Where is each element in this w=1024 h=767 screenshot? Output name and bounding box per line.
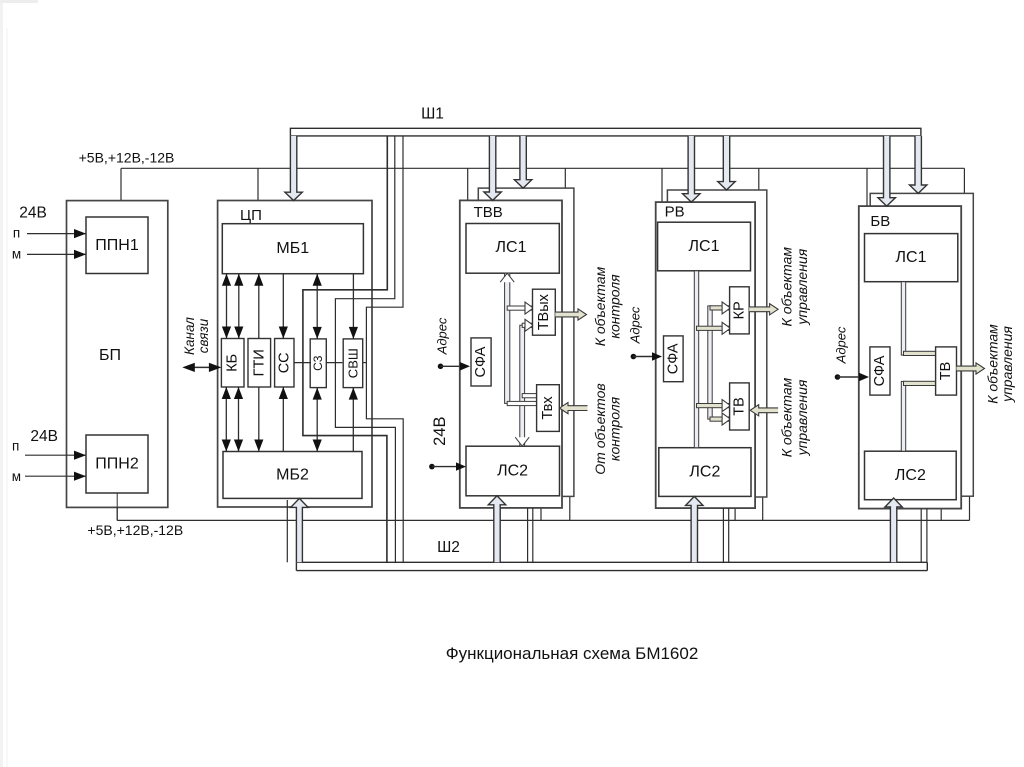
wire РВ back drop [762,497,764,520]
wire ТВВ ЛС2 down a [527,508,529,562]
wire ТВВ H1 [507,401,536,405]
wire БВ back drop [969,496,971,520]
svg-text:ЛС1: ЛС1 [496,239,527,256]
block РВ back [667,190,766,497]
wire КБ-МБ1 b [238,274,240,339]
svg-text:БП: БП [99,347,121,364]
wire СС-СЗ [294,362,311,364]
wire bus path B [335,136,395,562]
svg-text:24В: 24В [431,417,449,446]
box БВ СФА [870,347,890,395]
svg-text:С3: С3 [311,355,325,371]
wire ППН2 bottom lead [116,493,118,520]
wire СЗ-МБ1 [316,274,318,339]
svg-text:ЛС1: ЛС1 [896,249,927,266]
svg-text:Адрес: Адрес [834,326,849,364]
bus arrow Ш1-БВ 2 [910,136,927,194]
wire drop to ТВВ back [564,168,566,188]
wire Адрес БВ [835,374,841,380]
wire ГТИ-МБ1 [258,274,260,339]
wire ТВВ V2 [520,325,525,446]
svg-text:управления: управления [794,248,810,325]
svg-text:Канал: Канал [182,317,197,355]
block БВ back [870,193,973,496]
bus arrow Ш2-МБ2 [291,498,308,562]
svg-text:ППН2: ППН2 [95,456,139,473]
wire БВ ЛС2 down a [920,509,922,563]
svg-text:ТВ: ТВ [938,362,954,381]
svg-text:ЛС1: ЛС1 [689,238,720,255]
wire ТВВ V1 [505,273,510,403]
wire ТВВ H2 [522,323,532,327]
bus arrow Ш1-РВ 1 [683,136,700,202]
bus arrow Ш2-РВ ЛС2 [686,496,703,562]
wire РВ bar КР up [710,306,730,310]
wire drop to ЦП [257,168,259,200]
block БВ front [859,206,961,509]
wire БВ bar up [904,351,936,355]
wire ППН2 to bottom line [116,493,118,520]
svg-text:Функциональная схема БМ1602: Функциональная схема БМ1602 [446,644,699,663]
block ЦП [218,201,372,508]
wire РВ ЛС2 down a [722,508,724,562]
arrow РВ ТВ input [750,405,778,416]
wire +5B,+12B,-12B top [121,167,964,169]
wire ТВВ ЛС2 down b [532,508,534,562]
wire +5B,+12B,-12B bottom [117,519,969,521]
wire ТВВ back drop [569,496,571,520]
wire ТВВ H3 [507,306,532,310]
bus arrow Ш1-ТВВ 2 [514,136,531,188]
svg-text:ТВ: ТВ [731,397,747,416]
box ТВВ ЛС2 [466,446,560,496]
box ППН1 [86,217,148,274]
wire ТВВ stub [540,508,542,521]
svg-text:СВШ: СВШ [345,348,360,378]
wire 24В ТВВ [429,464,435,470]
svg-text:Адрес: Адрес [434,317,449,355]
arrow КР output [749,304,778,315]
svg-text:СФА: СФА [872,355,888,386]
box ТВВ ЛС1 [466,224,559,274]
svg-text:МБ1: МБ1 [276,240,309,257]
box РВ СФА [664,336,684,382]
svg-text:контроля: контроля [606,274,622,339]
wire Адрес ТВВ [438,364,444,370]
wire bus path C [303,136,387,562]
wire РВ bar ТВ down [710,417,730,421]
svg-text:ЛС2: ЛС2 [689,464,720,481]
wire м input 1 [27,253,86,255]
wire БВ V up [901,282,905,355]
svg-text:Твх: Твх [540,396,556,420]
wire БВ ЛС2 down b [926,509,928,563]
svg-text:Ш1: Ш1 [421,105,444,122]
wire п input 2 [25,454,86,456]
block ТВВ back [478,188,574,496]
wire drop to РВ [661,168,663,202]
wire ТВВ H4 [522,394,536,398]
svg-text:ТВых: ТВых [536,293,552,330]
svg-text:контроля: контроля [606,396,622,461]
wire БВ stub [940,509,942,521]
wire БВ bar down [904,381,936,385]
bus arrow Ш1-ЦП [285,136,302,201]
wire drop to БВ [866,168,868,206]
wire СЗ-МБ2 [316,388,318,452]
wire БВ V down [901,381,905,451]
wire СС-МБ2 [282,387,284,452]
arrow БВ ТВ output [957,363,985,374]
wire drop to РВ back [758,168,760,190]
wire м input 2 [25,475,86,477]
box КР [730,287,750,334]
box ТВых [533,289,556,335]
wire drop to БВ back [963,168,965,193]
wire МБ2-Ш2 left [286,500,288,562]
box ТВх [537,385,560,432]
bus Ш1 [290,128,921,136]
wire drop to ППН1 [120,168,122,217]
svg-text:К объектам: К объектам [779,247,795,327]
box ГТИ [248,339,271,388]
svg-text:ГТИ: ГТИ [251,349,267,376]
svg-text:ППН1: ППН1 [95,237,139,254]
bus arrow Ш1-ТВВ 1 [484,136,501,201]
wire п input 1 [27,233,86,235]
svg-text:МБ2: МБ2 [276,467,309,484]
box РВ ТВ [730,383,750,430]
bus arrow Ш2-БВ ЛС2 [885,498,902,562]
arrow ТВых output [555,309,586,320]
block БП [67,201,168,508]
wire РВ bar ТВ up [697,404,730,408]
svg-text:связи: связи [196,318,211,353]
box РВ ЛС2 [659,448,751,497]
wire СВШ-шина [363,362,366,364]
wire РВ V2 [708,306,712,419]
svg-text:Ш2: Ш2 [437,539,460,556]
svg-text:ЛС2: ЛС2 [895,467,926,484]
svg-text:п: п [12,439,19,454]
wire КБ-МБ1 a [226,274,228,339]
block ТВВ front [460,200,562,508]
svg-text:СФА: СФА [473,346,489,377]
svg-text:управления: управления [999,326,1015,403]
wire ГТИ-МБ2 [258,387,260,452]
wire КБ-МБ2 a [225,387,227,452]
wire Канал связи arrow [186,366,218,368]
svg-text:24В: 24В [19,205,47,222]
svg-text:БВ: БВ [870,213,890,230]
svg-text:ТВВ: ТВВ [474,204,503,221]
svg-text:КБ: КБ [225,354,241,372]
box МБ2 [223,452,362,499]
wire СВШ-МБ2 [352,388,354,452]
bus arrow Ш1-БВ 1 [878,136,895,206]
wire РВ bar КР down [697,326,730,330]
svg-text:ЛС2: ЛС2 [497,463,528,480]
wire Адрес РВ [631,354,637,360]
wire РВ stub [734,508,736,520]
box ППН2 [86,435,148,493]
svg-text:м: м [12,247,21,262]
box МБ1 [222,224,363,274]
box СЗ [310,339,326,388]
svg-text:+5В,+12В,-12В: +5В,+12В,-12В [87,522,183,538]
wire РВ V1 [694,271,698,448]
svg-text:Адрес: Адрес [628,306,643,344]
wire КБ-МБ2 b [238,387,240,452]
bus Ш2 [296,561,927,563]
bus arrow Ш1-РВ 2 [718,136,735,190]
bus arrow Ш2-ТВВ ЛС2 [488,496,505,563]
wire СС-МБ1 [282,274,284,339]
box БВ ЛС1 [865,234,958,282]
svg-text:п: п [13,226,20,241]
box БВ ЛС2 [865,451,957,500]
svg-text:24В: 24В [30,428,58,445]
box ТВВ СФА [471,338,491,386]
box СВШ [343,339,363,388]
svg-text:ЦП: ЦП [240,207,262,224]
box РВ ЛС1 [658,222,751,271]
svg-text:СС: СС [276,352,292,373]
svg-text:КР: КР [731,301,747,319]
box БВ ТВ [936,347,957,395]
wire СВШ-МБ1 [352,274,354,339]
box СС [275,339,294,388]
wire drop to ТВВ [467,168,469,200]
svg-text:м: м [12,469,21,484]
svg-text:СФА: СФА [665,343,681,374]
wire РВ ЛС2 down b [728,508,730,562]
wire bus path A [366,136,403,562]
svg-text:+5В,+12В,-12В: +5В,+12В,-12В [79,150,175,166]
wire СЗ-СВШ [326,362,342,364]
arrow ТВх input [560,403,588,414]
block РВ front [656,202,755,508]
page left edge shading [0,0,3,767]
svg-text:управления: управления [794,379,810,456]
svg-text:К объектам: К объектам [779,377,795,457]
box КБ [221,339,244,388]
svg-text:РВ: РВ [665,203,685,220]
